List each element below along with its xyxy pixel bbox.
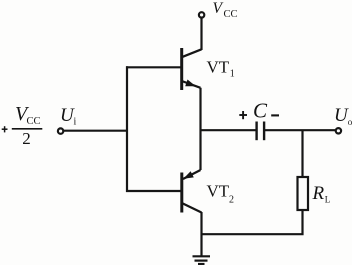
capacitor C [257,122,265,141]
svg-text:V: V [213,0,224,17]
wire output node down to RL [301,130,303,176]
svg-text:i: i [74,117,77,128]
wire VT1 collector to Vcc terminal [200,18,202,50]
svg-text:VT: VT [207,182,230,201]
label VT2 [207,182,235,206]
svg-text:C: C [253,99,268,123]
wire RL bottom to ground junction [202,210,303,234]
svg-text:CC: CC [224,9,238,20]
label minus polarity [271,114,279,116]
label Vcc [213,0,238,20]
svg-text:2: 2 [22,129,31,148]
wire base bus vertical [126,66,128,192]
svg-text:CC: CC [27,116,41,127]
svg-text:2: 2 [229,195,234,206]
svg-text:R: R [312,183,325,204]
transistor VT1 [182,48,202,90]
svg-text:L: L [325,194,331,204]
terminal Uo [336,128,341,133]
wire emitter node to capacitor [201,129,256,131]
label RL [312,183,331,205]
wire emitter junction vertical [199,88,201,170]
wire to VT1 base [126,66,181,68]
transistor VT2 [182,170,202,213]
terminal Vcc [199,12,204,17]
svg-text:o: o [348,117,352,127]
label +Vcc/2 [2,103,43,148]
label Uo [334,105,352,127]
label Ui [60,105,77,127]
label plus polarity [239,111,247,119]
resistor RL [298,177,309,210]
svg-text:1: 1 [230,69,235,80]
svg-text:VT: VT [207,57,230,76]
svg-text:U: U [334,105,349,126]
wire to VT2 base [126,190,181,192]
ground [193,256,211,264]
wire input to base bus [64,130,127,132]
wire capacitor to output terminal [265,129,335,131]
wire VT2 collector to ground [200,212,202,256]
terminal Ui [58,128,63,133]
label VT1 [207,57,235,79]
